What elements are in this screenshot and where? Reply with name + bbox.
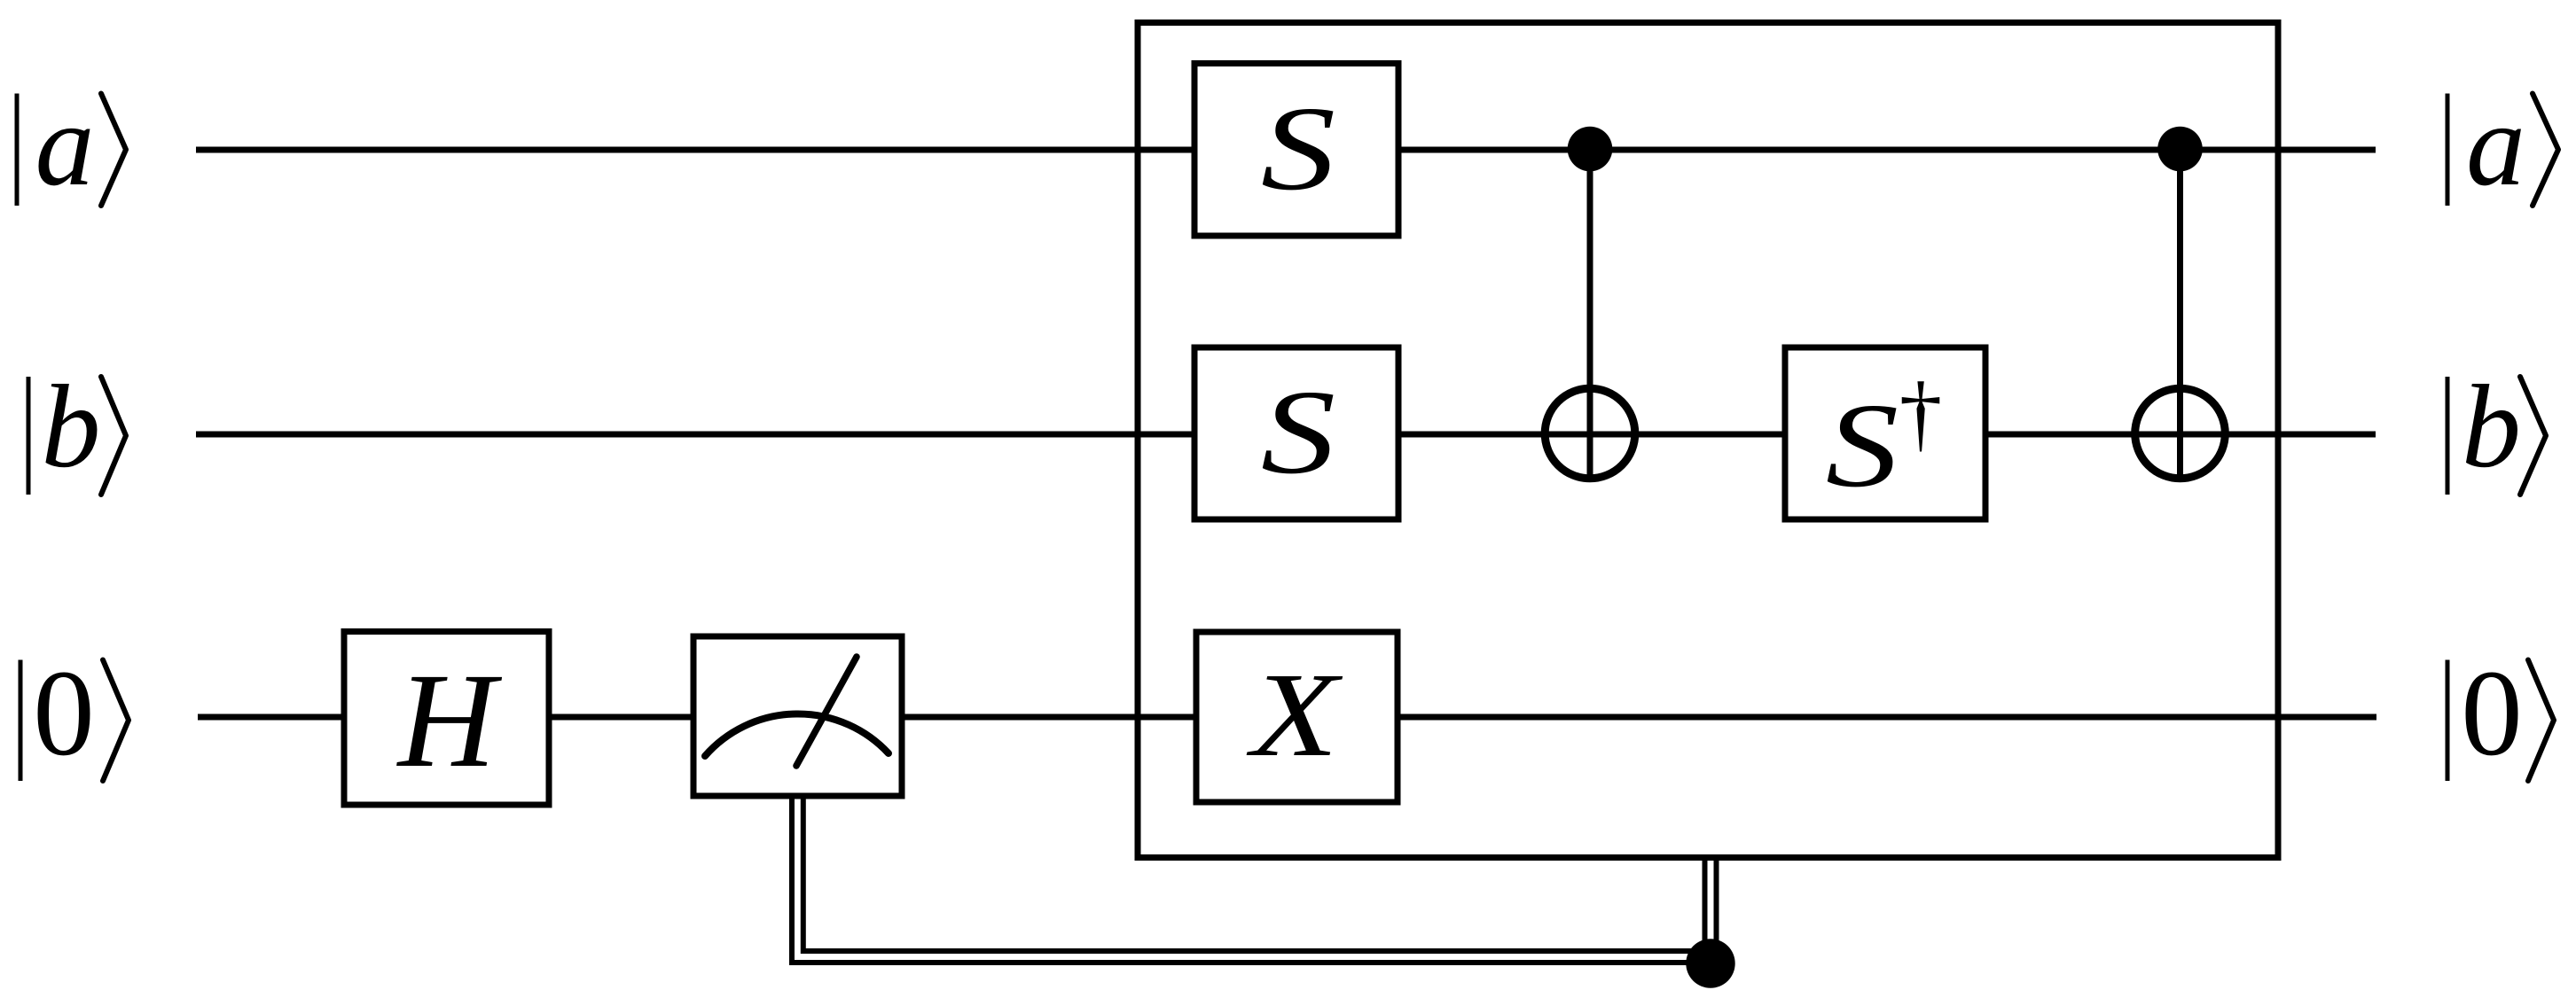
CNOT 1 target on wire b [1545,388,1635,479]
gate X on ancilla [1196,632,1398,802]
wire ancilla 0 [198,714,2376,721]
gate S2 on wire b [1194,347,1398,519]
gate S-dagger on wire b [1785,347,1985,519]
meter M measurement [693,636,902,796]
svg-text:X: X [1247,648,1343,782]
gate S1 on wire a [1194,64,1398,237]
svg-text:†: † [1899,365,1943,460]
svg-text:b: b [2462,361,2521,492]
gate H [344,632,549,806]
CNOT 2 control-target vertical wire [2177,150,2183,480]
node ket a left [17,79,126,210]
svg-text:a: a [2466,79,2525,210]
classical control dot [1686,939,1734,987]
svg-text:b: b [42,361,101,492]
classical double wire into box U [1703,855,1708,963]
svg-text:S: S [1261,82,1335,215]
CNOT 2 target on wire b [2135,388,2226,479]
node ket 0 left [20,645,129,782]
wire qubit b [196,432,2376,438]
CNOT 2 control dot on wire a [2157,127,2203,172]
CNOT 1 control dot on wire a [1568,127,1613,172]
svg-text:S: S [1826,378,1899,511]
classical double wire from meter [792,794,1711,963]
svg-text:a: a [35,79,95,210]
controlled box U [1138,23,2278,858]
svg-text:0: 0 [33,645,95,782]
node ket b left [28,361,126,495]
svg-text:H: H [396,646,503,796]
svg-text:0: 0 [2461,645,2523,782]
node ket a right [2447,79,2558,210]
CNOT 1 control-target vertical wire [1587,150,1593,480]
wire qubit a [196,147,2376,153]
node ket 0 right [2447,645,2554,782]
node ket b right [2447,361,2546,495]
svg-text:S: S [1261,365,1335,499]
